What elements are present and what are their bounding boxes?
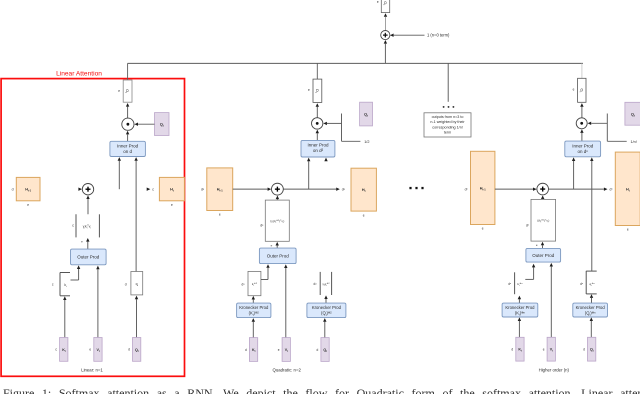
svg-text:Quadratic: n=2: Quadratic: n=2 xyxy=(273,368,302,373)
output box O_t (quadratic n=2) xyxy=(313,79,322,102)
svg-text:1/2: 1/2 xyxy=(364,140,369,144)
label d left of K_t (quadratic n=2) xyxy=(245,348,247,352)
arrow state into inner prod (linear n=1) xyxy=(118,157,121,189)
svg-text:c: c xyxy=(72,224,74,228)
arrow into top O box xyxy=(384,13,387,30)
input box Q_t (higher order n) xyxy=(588,337,596,361)
wire key element to outer prod (quadratic n=2) xyxy=(261,264,270,279)
red dashed container box (Linear Attention group) xyxy=(1,79,184,377)
arrowhead into sum from H_t-1 (higher order n) xyxy=(533,187,537,190)
input box V_t (linear n=1) xyxy=(94,338,102,362)
input box Q_t (quadratic n=2) xyxy=(321,338,329,362)
expression gamma k^T v (linear n=1) xyxy=(76,214,99,237)
arrow query into inner prod (higher order n) xyxy=(590,157,593,271)
wire bus to O box (quadratic n=2) xyxy=(316,63,318,79)
input box K_t (linear n=1) xyxy=(60,338,68,362)
arrow outer prod into expression (higher order n) xyxy=(541,242,544,249)
arrow K input to kron (higher order n) xyxy=(518,317,521,337)
svg-text:Ot: Ot xyxy=(382,1,388,5)
label e below H_t (higher order n) xyxy=(627,228,629,232)
svg-text:term: term xyxy=(444,130,451,134)
svg-text:e: e xyxy=(27,203,29,207)
svg-text:Inner Prod: Inner Prod xyxy=(572,143,594,148)
svg-text:Kronecker Prod: Kronecker Prod xyxy=(312,305,342,310)
wire bus to O box (higher order n) xyxy=(581,63,583,78)
label e below H_t (quadratic n=2) xyxy=(363,213,365,217)
label 1/n! (higher order n) xyxy=(631,140,637,144)
arrow kron to key bar (higher order n) xyxy=(518,296,521,304)
svg-text:Ot: Ot xyxy=(578,88,584,92)
svg-text:d: d xyxy=(511,348,513,352)
svg-text:d: d xyxy=(583,348,585,352)
label e below expression (higher order n) xyxy=(536,243,538,247)
sum node (linear n=1) xyxy=(82,184,93,195)
arrow outer prod into expression (linear n=1) xyxy=(86,238,89,249)
svg-text:d: d xyxy=(317,348,319,352)
label e below expression (quadratic n=2) xyxy=(271,243,273,247)
svg-text:e: e xyxy=(171,203,173,207)
svg-text:d: d xyxy=(12,188,14,192)
label d left of H_t-1 (linear n=1) xyxy=(12,188,14,192)
svg-text:e: e xyxy=(482,227,484,231)
inner prod box (quadratic n=2) xyxy=(301,140,335,157)
label e left of V_t (quadratic n=2) xyxy=(278,348,280,352)
label d&#8319; left of H_t-1 (higher order n) xyxy=(465,188,469,192)
dot product node (quadratic n=2) xyxy=(312,118,323,129)
label e below H_t-1 (higher order n) xyxy=(482,227,484,231)
arrow state into inner prod (quadratic n=2) xyxy=(307,158,310,190)
svg-text:1 (n=0 term): 1 (n=0 term) xyxy=(427,33,450,38)
input box V_t (higher order n) xyxy=(547,337,555,361)
wire key element to outer prod (higher order n) xyxy=(525,264,535,280)
arrow O box from dot-product (quadratic n=2) xyxy=(316,103,319,118)
arrow O box from dot-product (linear n=1) xyxy=(126,103,129,118)
svg-text:Vt: Vt xyxy=(285,348,288,353)
arrow query into inner prod (quadratic n=2) xyxy=(324,158,327,162)
svg-text:c: c xyxy=(152,188,154,192)
kronecker prod box Q (higher order n) xyxy=(573,303,608,317)
arrow Q input to kron (higher order n) xyxy=(590,317,593,337)
dot product node (linear n=1) xyxy=(122,118,134,130)
svg-text:e: e xyxy=(363,213,365,217)
wire Q_t to dot product (linear n=1) xyxy=(134,123,154,126)
svg-text:e: e xyxy=(118,89,120,93)
wire bus to O box (linear n=1) xyxy=(127,63,129,80)
wire V_t to outer prod (higher order n) xyxy=(550,263,553,338)
label d&#8319; left of expression (higher order n) xyxy=(526,224,530,228)
svg-text:dⁿ: dⁿ xyxy=(580,282,583,286)
wire 1 (n=0 term) into top sum xyxy=(390,34,425,37)
svg-text:((kt⊗n)Tvt): ((kt⊗n)Tvt) xyxy=(537,218,549,223)
arrow dot product from inner prod (quadratic n=2) xyxy=(316,130,319,141)
input box K_t (higher order n) xyxy=(516,337,524,361)
input box K_t (quadratic n=2) xyxy=(249,338,257,362)
svg-text:Ot: Ot xyxy=(314,89,320,93)
state box H_t (quadratic n=2) xyxy=(351,168,376,211)
state box H_t (higher order n) xyxy=(615,152,640,225)
label Linear Attention xyxy=(56,70,102,77)
svg-text:Outer Prod: Outer Prod xyxy=(267,254,290,259)
query element q_t box (linear n=1) xyxy=(125,272,143,295)
arrow K input into transpose (linear n=1) xyxy=(63,296,66,337)
label c left of K_t (linear n=1) xyxy=(55,348,57,352)
svg-text:d²: d² xyxy=(242,282,245,286)
outer prod box (higher order n) xyxy=(526,248,561,262)
svg-text:Kt: Kt xyxy=(252,348,256,353)
arrow Q input to kron (quadratic n=2) xyxy=(323,318,326,337)
column caption Higher order (n) (higher order n) xyxy=(539,368,570,373)
label d&#178; left of expression (quadratic n=2) xyxy=(260,224,264,228)
wire sum to H_t (higher order n) xyxy=(549,188,604,190)
svg-text:γtktTvt: γtktTvt xyxy=(83,224,92,229)
state box H_t-1 (higher order n) xyxy=(471,151,495,224)
label 1 (n=0 term) xyxy=(427,33,450,38)
state box H_t-1 (linear n=1) xyxy=(16,177,40,200)
label d left of Q_t (higher order n) xyxy=(583,348,585,352)
svg-text:e: e xyxy=(308,88,310,92)
svg-text:e: e xyxy=(219,213,221,217)
svg-text:Linear Attention: Linear Attention xyxy=(56,70,102,77)
wire elbow with scale factor into dot product (higher order n) xyxy=(588,114,627,142)
ellipsis dots above note xyxy=(443,106,455,108)
label e left of O box (higher order n) xyxy=(573,87,575,91)
expression ((k^oxn)^T v) (higher order n) xyxy=(531,199,556,241)
key element k^oxn bar (higher order n) xyxy=(508,272,523,294)
svg-text:Qt: Qt xyxy=(323,348,327,353)
svg-text:Ot: Ot xyxy=(124,89,130,93)
svg-text:d: d xyxy=(128,348,130,352)
svg-text:Kt: Kt xyxy=(62,348,66,353)
ellipsis between quadratic and higher-order columns xyxy=(409,187,423,189)
label e left of V_t (higher order n) xyxy=(543,348,545,352)
wire key element to outer prod (linear n=1) xyxy=(71,265,81,280)
column caption Linear: n=1 (linear n=1) xyxy=(81,368,103,373)
state box H_t (linear n=1) xyxy=(159,177,184,200)
kronecker prod box Q (quadratic n=2) xyxy=(307,303,346,318)
arrowhead into H_t (linear n=1) xyxy=(147,187,151,190)
svg-text:1/n!: 1/n! xyxy=(631,140,637,144)
input box Q_t (linear n=1) xyxy=(133,338,141,362)
arrowhead into sum from H_t-1 (quadratic n=2) xyxy=(268,187,272,190)
note box: outputs from n=3 to n-1 weighted by their corresponding 1/n! term xyxy=(424,113,471,137)
inner prod box (higher order n) xyxy=(565,141,601,157)
svg-text:d: d xyxy=(125,283,127,287)
svg-text:Linear: n=1: Linear: n=1 xyxy=(81,368,103,373)
svg-text:Inner Prod: Inner Prod xyxy=(307,143,329,148)
label d left of K_t (higher order n) xyxy=(511,348,513,352)
svg-text:e: e xyxy=(278,348,280,352)
top sum node + xyxy=(381,30,390,39)
query box Q_t (higher order n) xyxy=(625,102,640,125)
svg-text:Qt: Qt xyxy=(590,348,594,353)
key element k^ox2 box (quadratic n=2) xyxy=(242,271,261,295)
svg-text:e: e xyxy=(627,228,629,232)
label e (top box) xyxy=(377,0,379,4)
svg-text:corresponding 1/n!: corresponding 1/n! xyxy=(432,125,463,129)
label c left of expression (linear n=1) xyxy=(72,224,74,228)
key element [k_t (linear n=1) xyxy=(52,273,70,296)
query element [q^oxn (higher order n) xyxy=(580,271,597,303)
dot product node (higher order n) xyxy=(576,118,587,129)
svg-text:on dⁿ: on dⁿ xyxy=(577,149,588,154)
svg-text:e: e xyxy=(573,87,575,91)
arrow outer prod into expression (quadratic n=2) xyxy=(276,242,279,248)
svg-text:Outer Prod: Outer Prod xyxy=(532,253,555,258)
inner prod box (linear n=1) xyxy=(110,141,145,156)
svg-text:Outer Prod: Outer Prod xyxy=(77,255,100,260)
svg-text:Kronecker Prod: Kronecker Prod xyxy=(576,305,606,310)
svg-text:e: e xyxy=(543,348,545,352)
wire V_t to outer prod (linear n=1) xyxy=(96,266,99,338)
svg-text:on d²: on d² xyxy=(313,148,324,153)
caption text (clipped at page bottom) xyxy=(3,386,640,394)
label d&#8319; before H_t (higher order n) xyxy=(610,188,614,192)
label e below expression (linear n=1) xyxy=(81,239,83,243)
label c before H_t (linear n=1) xyxy=(152,188,154,192)
svg-text:d: d xyxy=(245,348,247,352)
label e below H_t-1 (linear n=1) xyxy=(27,203,29,207)
kronecker prod box K (quadratic n=2) xyxy=(237,303,271,318)
query element |gamma q^ox2| (quadratic n=2) xyxy=(314,272,332,303)
wire elbow with scale factor into dot product (quadratic n=2) xyxy=(323,114,360,142)
wire V_t to outer prod (quadratic n=2) xyxy=(284,264,287,337)
arrow Q input into q box (linear n=1) xyxy=(135,296,138,338)
label d&#178; left of H_t-1 (quadratic n=2) xyxy=(201,188,205,192)
svg-text:Figure 1: Softmax attention as: Figure 1: Softmax attention as a RNN. We… xyxy=(3,386,640,394)
wire H_t-1 to sum (quadratic n=2) xyxy=(233,188,268,190)
arrowhead into H_t (quadratic n=2) xyxy=(336,187,340,190)
wire bus up into top sum xyxy=(384,40,387,63)
arrow O box from dot-product (higher order n) xyxy=(580,103,583,118)
svg-text:Higher order (n): Higher order (n) xyxy=(539,368,570,373)
svg-text:Qt: Qt xyxy=(135,348,139,353)
svg-text:on d: on d xyxy=(123,149,132,154)
arrow kron to key box (quadratic n=2) xyxy=(252,296,255,303)
svg-text:Kt: Kt xyxy=(518,348,522,353)
svg-text:Inner Prod: Inner Prod xyxy=(117,144,139,149)
svg-text:Kronecker Prod: Kronecker Prod xyxy=(239,305,269,310)
label e below H_t-1 (quadratic n=2) xyxy=(219,213,221,217)
query box Q_t (linear n=1) xyxy=(155,113,170,136)
column caption Quadratic: n=2 (quadratic n=2) xyxy=(273,368,302,373)
arrowhead into sum from H_t-1 (linear n=1) xyxy=(78,187,82,190)
arrow expression into sum (quadratic n=2) xyxy=(276,196,279,201)
arrow K input to kron (quadratic n=2) xyxy=(252,318,255,337)
svg-text:Vt: Vt xyxy=(550,348,553,353)
svg-text:outputs from n=3 to: outputs from n=3 to xyxy=(432,115,464,119)
wire from bus down to note xyxy=(447,63,449,101)
arrowhead into H_t (higher order n) xyxy=(604,187,608,190)
arrow dot product from inner prod (linear n=1) xyxy=(126,131,129,142)
wire sum to H_t (quadratic n=2) xyxy=(283,188,336,190)
outer prod box (quadratic n=2) xyxy=(259,248,296,264)
kronecker prod box K (higher order n) xyxy=(502,303,538,317)
svg-text:Kronecker Prod: Kronecker Prod xyxy=(505,305,535,310)
arrow dot product from inner prod (higher order n) xyxy=(580,129,583,141)
svg-text:n-1 weighted by their: n-1 weighted by their xyxy=(430,120,465,124)
arrow state into inner prod (higher order n) xyxy=(572,157,575,189)
arrow expression into sum (linear n=1) xyxy=(86,195,89,214)
svg-text:dⁿ: dⁿ xyxy=(508,282,511,286)
svg-text:Vt: Vt xyxy=(96,348,99,353)
sum node (quadratic n=2) xyxy=(272,183,284,195)
label d left of Q_t (linear n=1) xyxy=(128,348,130,352)
outer prod box (linear n=1) xyxy=(71,249,107,265)
output box O_t (higher order n) xyxy=(578,78,586,102)
label e left of O box (quadratic n=2) xyxy=(308,88,310,92)
label e left of V_t (linear n=1) xyxy=(89,348,91,352)
output box O_t (linear n=1) xyxy=(123,80,132,102)
label 1/2 (quadratic n=2) xyxy=(364,140,369,144)
label d&#178; before H_t (quadratic n=2) xyxy=(342,188,346,192)
arrow expression into sum (higher order n) xyxy=(541,195,544,199)
svg-text:e: e xyxy=(377,0,379,4)
sum node (higher order n) xyxy=(537,183,549,195)
bus wire joining all outputs xyxy=(128,62,584,64)
expression (gamma (k^ox2)^T v) (quadratic n=2) xyxy=(265,200,289,241)
arrow query into inner prod (linear n=1) xyxy=(134,157,137,271)
top output box O_t (cut off at top) xyxy=(381,0,389,13)
label e below H_t (linear n=1) xyxy=(171,203,173,207)
label e left of O box (linear n=1) xyxy=(118,89,120,93)
wire H_t-1 to sum (higher order n) xyxy=(495,188,533,190)
input box V_t (quadratic n=2) xyxy=(282,338,290,362)
svg-text:e: e xyxy=(89,348,91,352)
label d left of Q_t (quadratic n=2) xyxy=(317,348,319,352)
svg-text:d²: d² xyxy=(314,282,317,286)
state box H_t-1 (quadratic n=2) xyxy=(207,168,233,211)
query box Q_t (quadratic n=2) xyxy=(360,102,373,126)
